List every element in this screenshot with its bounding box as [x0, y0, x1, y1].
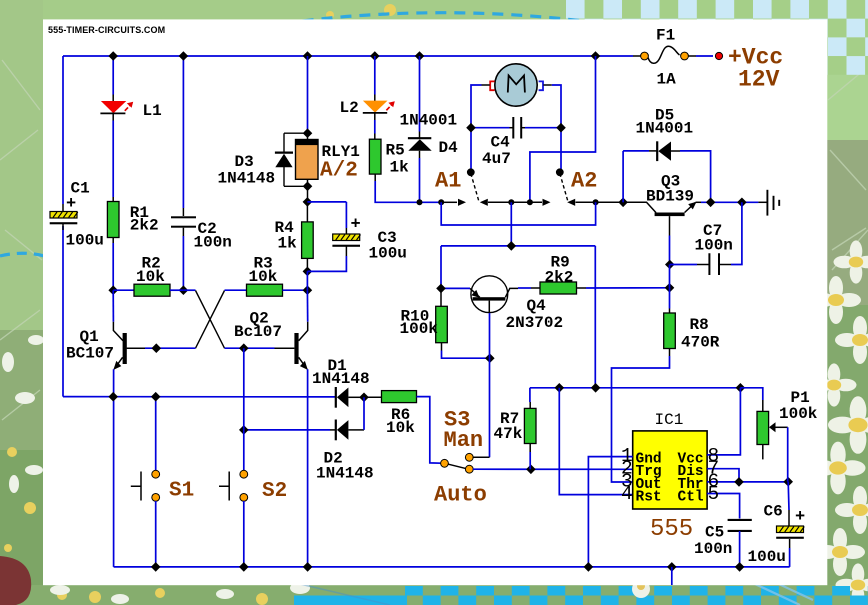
junction rail Q2 emitter [303, 562, 313, 572]
svg-text:100k: 100k [779, 405, 818, 423]
junction RLY1 top [303, 128, 313, 138]
resistor R5 [369, 120, 381, 181]
svg-text:555-TIMER-CIRCUITS.COM: 555-TIMER-CIRCUITS.COM [48, 25, 165, 35]
wire: horizontal net y=397 from left column to D1 [63, 396, 336, 398]
wire: C2 column [182, 56, 184, 290]
junction y388 / pin8 drop [736, 383, 746, 393]
value label R3 10k [249, 255, 278, 287]
svg-text:1k: 1k [278, 235, 298, 253]
junction R9 / R8 column [665, 283, 675, 293]
wire: R6 to S3 pole [417, 397, 442, 464]
switch contact A1 [467, 169, 479, 201]
svg-text:555: 555 [650, 516, 693, 543]
svg-text:A/2: A/2 [320, 160, 358, 183]
junction y388 / y246 leg [591, 383, 601, 393]
diode D2 [244, 397, 364, 440]
value label C1 [66, 180, 104, 250]
svg-text:IC1: IC1 [655, 411, 684, 429]
wire: Vcc feed from rail to A2 segment [530, 56, 596, 202]
capacitor C6 [776, 482, 804, 567]
value label C4 4u7 [482, 134, 511, 169]
junction D2 / S2 column [239, 425, 249, 435]
value label R7 47k [494, 410, 523, 443]
svg-text:RLY1: RLY1 [322, 143, 360, 161]
junction top rail / D4 [415, 51, 425, 61]
wire: R4 bottom to Q2 collector node [306, 271, 308, 290]
capacitor C7 [670, 202, 742, 275]
junction rail S2 [239, 562, 249, 572]
resistor R7 [524, 388, 536, 470]
junction Q3 base / C7 [665, 260, 675, 270]
svg-text:Auto: Auto [434, 483, 487, 508]
svg-text:1A: 1A [657, 71, 677, 89]
value label Q2 Bc107 [234, 310, 282, 342]
svg-text:L1: L1 [143, 102, 162, 120]
junction rail C5 [735, 562, 745, 572]
potentiometer P1 [740, 388, 787, 460]
svg-text:10k: 10k [249, 268, 278, 286]
svg-text:4: 4 [621, 483, 633, 505]
junction C4 left [466, 123, 476, 133]
svg-text:L2: L2 [340, 99, 359, 117]
svg-text:100u: 100u [748, 548, 786, 566]
wire: Q1 emitter down to ground rail [113, 369, 115, 567]
value label R10 100k [400, 308, 439, 339]
wire: contact line segment 1 with NC arrow [420, 199, 467, 206]
wire: P1 wiper down to Thr [787, 427, 789, 481]
junction pole segment / Vcc feed [527, 199, 533, 205]
junction y388 / Rst drop [555, 383, 565, 393]
junction crossover right [593, 199, 599, 205]
net label +Vcc 12V [728, 45, 783, 93]
transistor Q4 [470, 276, 518, 313]
svg-text:5: 5 [708, 483, 720, 505]
svg-text:100n: 100n [694, 540, 732, 558]
svg-text:Bc107: Bc107 [234, 323, 282, 341]
ground symbol [758, 190, 779, 216]
junction top rail / L2 [370, 51, 380, 61]
resistor R2 [113, 284, 183, 296]
junction top rail / RLY1 [303, 51, 313, 61]
wire: Q4 base down to S3 Man throw [489, 313, 491, 457]
resistor R4 [302, 202, 314, 272]
svg-text:C4: C4 [491, 134, 511, 152]
value label D2 1N4148 [316, 450, 374, 483]
value label R5 1k [386, 142, 410, 177]
value label C2 100n [194, 220, 232, 252]
junction rail stub down [667, 562, 677, 572]
svg-text:1N4148: 1N4148 [316, 465, 374, 483]
wire: crossover U link [441, 202, 595, 225]
wire: pin7 Dis link to Thr [707, 469, 739, 482]
svg-text:S1: S1 [169, 480, 194, 503]
resistor R3 [247, 284, 308, 296]
junction rail Gnd pin [584, 562, 594, 572]
svg-text:1N4001: 1N4001 [636, 120, 694, 138]
junction pole segment / R9 drop [508, 199, 514, 205]
LED L2 [363, 56, 395, 120]
resistor R8 [664, 265, 676, 357]
svg-text:BC107: BC107 [66, 345, 114, 363]
capacitor C1 [50, 204, 78, 230]
value label R8 470R [681, 316, 720, 352]
transistor Q3 [641, 202, 701, 236]
capacitor C2 [171, 208, 196, 236]
value label R4 1k [275, 219, 298, 253]
svg-text:2k2: 2k2 [545, 269, 574, 287]
svg-text:+: + [66, 195, 76, 214]
wire: Q2 emitter down to ground rail [307, 369, 309, 567]
junction Q1 emitter / y397 net [108, 392, 118, 402]
svg-text:4u7: 4u7 [482, 150, 511, 168]
wire: y246 link [441, 245, 595, 247]
wire: pin1 Gnd to ground rail [588, 457, 632, 567]
junction R1/R2 [108, 285, 118, 295]
value label C5 100n [694, 524, 732, 559]
capacitor C4 [471, 117, 561, 139]
wire: R5 bottom to contact line [375, 181, 419, 202]
junction RLY1 bottom [303, 182, 313, 192]
svg-text:2k2: 2k2 [130, 217, 159, 235]
switch S3 [441, 453, 490, 473]
wire: contact line segment 3 to Q3 [567, 199, 641, 206]
svg-text:Q4: Q4 [527, 297, 547, 315]
junction Dis/Thr [734, 477, 744, 487]
junction Thr / P1 wiper [783, 477, 793, 487]
junction base Q2 / S2 [239, 343, 249, 353]
svg-text:C5: C5 [705, 524, 724, 542]
wire: Q3 emitter to ground [701, 201, 758, 203]
value label D5 1N4001 [636, 107, 694, 138]
svg-text:100u: 100u [369, 245, 407, 263]
switch S1 [131, 397, 160, 567]
junction Q4 emitter / R10 [436, 284, 446, 294]
junction Q4 base / R10 [485, 353, 495, 363]
svg-text:+: + [795, 508, 805, 527]
svg-text:10k: 10k [136, 268, 165, 286]
value label D3 1N4148 [218, 153, 276, 188]
transistor Q2 [275, 290, 308, 370]
wire: y388 net (R7 top to pin8) [530, 387, 741, 389]
wire: Q3 base down to C7 node [669, 236, 671, 265]
svg-text:+: + [351, 216, 361, 235]
junction Q3 emitter [706, 198, 716, 208]
wire: left column C1 branch [62, 56, 64, 397]
resistor R1 [107, 197, 119, 243]
switch contact A2 [556, 169, 568, 201]
switch S2 [219, 348, 248, 567]
svg-text:A1: A1 [435, 169, 461, 194]
svg-text:100u: 100u [66, 232, 104, 250]
junction S1 / y397 net [151, 392, 161, 402]
svg-text:12V: 12V [738, 67, 780, 93]
diode D3 [275, 133, 308, 186]
diode D5 [623, 141, 711, 202]
value label F1 1A [656, 27, 676, 89]
junction C4 right [556, 123, 566, 133]
wire: Q1 base net [145, 347, 196, 349]
junction crossover left [438, 199, 444, 205]
svg-text:100k: 100k [400, 320, 439, 338]
svg-text:1N4148: 1N4148 [218, 170, 276, 188]
svg-text:R8: R8 [690, 316, 709, 334]
svg-text:F1: F1 [656, 27, 675, 45]
svg-text:1N4001: 1N4001 [400, 112, 458, 130]
junction D4 / contact line [417, 199, 423, 205]
wire: Rst drop to pin4 [559, 388, 632, 495]
junction node RLY/R4/C3 [303, 197, 313, 207]
wire: R8 bottom to IC pin3 (Out) [612, 356, 670, 482]
junction D5 anode drop [618, 198, 628, 208]
svg-text:Ctl: Ctl [678, 490, 704, 506]
junction R4 bottom / C3 return [303, 267, 313, 277]
svg-text:D4: D4 [439, 139, 459, 157]
svg-text:100n: 100n [695, 237, 733, 255]
value label C6 100u [748, 503, 806, 567]
value label R1 2k2 [130, 204, 159, 235]
wire: R1 to node [112, 243, 114, 290]
junction C7 right drop [737, 198, 747, 208]
value label Q1 BC107 [66, 328, 114, 363]
wire: y246 right leg down to R7 line [594, 246, 596, 388]
svg-text:C6: C6 [764, 503, 783, 521]
junction top rail / A2 feed [591, 51, 601, 61]
value label R6 10k [386, 406, 415, 437]
motor M [482, 64, 552, 106]
wire: Q4 emitter from y246 leg [441, 287, 470, 289]
wire: Q2 base net [225, 347, 275, 349]
value label C7 100n [695, 222, 733, 255]
junction R3/Q2 collector [303, 285, 313, 295]
node +Vcc top rail [63, 55, 633, 57]
svg-text:BD139: BD139 [646, 188, 694, 206]
value label RLY1 A/2 [320, 143, 360, 183]
wire: motor right to A2 pivot [552, 85, 561, 171]
junction C2/R2 [179, 285, 189, 295]
relay coil RLY1 [296, 56, 319, 202]
junction base Q1 / S1 [152, 343, 162, 353]
wire: S3 auto throw to IC pin2 (Trg) [473, 468, 633, 470]
svg-text:A2: A2 [571, 169, 597, 194]
wire: pin6 Thr net [707, 481, 788, 483]
junction top rail / L1 [108, 51, 118, 61]
capacitor C3 [307, 202, 360, 272]
svg-text:R5: R5 [386, 142, 405, 160]
svg-text:D3: D3 [235, 153, 254, 171]
wire: R10 bottom to Q4 base [442, 351, 490, 359]
diode D4 [408, 56, 432, 202]
IC1 555 box [633, 431, 707, 509]
value label C3 100u [351, 216, 407, 263]
wire: pin8 Vcc stub [707, 388, 740, 455]
value label R2 10k [136, 255, 165, 287]
LED L1 [100, 56, 133, 121]
value label Q4 2N3702 [506, 297, 564, 332]
wire: stub below page [671, 567, 673, 585]
svg-text:Q1: Q1 [80, 328, 99, 346]
svg-text:47k: 47k [494, 425, 523, 443]
junction y246 [507, 241, 517, 251]
net label S3 Man Auto [434, 408, 487, 508]
value label 1N4001 D4 [400, 112, 459, 158]
value label R9 2k2 [545, 254, 574, 287]
value label D1 1N4148 [312, 357, 370, 388]
junction rail S1 [151, 562, 161, 572]
wire: ground rail [114, 566, 790, 568]
junction top rail / C2 [179, 51, 189, 61]
resistor R9 [518, 282, 670, 294]
capacitor C5 [707, 494, 752, 567]
wire: L1 to R1 [112, 121, 114, 198]
resistor R10 [436, 288, 448, 350]
svg-text:Rst: Rst [636, 490, 662, 506]
svg-text:S2: S2 [262, 480, 287, 503]
transistor Q1 [113, 290, 145, 370]
svg-text:1N4148: 1N4148 [312, 370, 370, 388]
svg-text:2N3702: 2N3702 [506, 314, 564, 332]
wire: cross-coupling X [183, 290, 246, 348]
svg-text:Man: Man [444, 428, 484, 453]
svg-text:1k: 1k [390, 159, 410, 177]
wire: contact line segment 2 (pole segment) [480, 199, 551, 206]
diode D1 [336, 387, 364, 408]
junction R7 / Trg net [526, 465, 536, 475]
svg-text:10k: 10k [386, 419, 415, 437]
wire: pole drop to R9 node [510, 202, 512, 246]
junction D1/D2/R6 [359, 393, 369, 403]
fuse F1 [633, 46, 713, 63]
wire: motor left to A1 pivot [471, 85, 482, 171]
resistor R6 [364, 391, 417, 403]
svg-text:100n: 100n [194, 234, 232, 252]
value label P1 100k [779, 389, 818, 423]
wire: y246 left leg down to Q4 emitter [440, 246, 442, 289]
node +Vcc terminal [715, 52, 722, 59]
value label Q3 BD139 [646, 173, 694, 206]
svg-text:470R: 470R [681, 334, 720, 352]
